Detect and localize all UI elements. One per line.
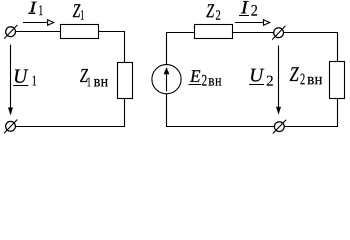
EMF source E2vn	[152, 65, 181, 94]
terminal P3 (top-right)	[272, 26, 285, 40]
wire (top-right terminal right, down to Z2vn)	[284, 33, 338, 62]
resistor Z2vn	[330, 62, 345, 99]
label U1	[13, 69, 36, 85]
resistor Z1vn	[118, 63, 133, 99]
label Z1vn	[80, 69, 108, 86]
current arrow I2	[235, 20, 270, 26]
wire (top-left terminal to Z1)	[16, 31, 61, 33]
wire (Z1 to corner, down to Z1vn)	[99, 32, 125, 63]
wire (Z2vn down, left along bottom rail to terminal)	[284, 99, 337, 127]
terminal P4 (bottom-right)	[273, 120, 286, 134]
resistor Z1	[61, 25, 99, 39]
label Z2	[206, 4, 220, 19]
label U2	[249, 69, 273, 86]
label Z2vn	[290, 67, 322, 84]
terminal P2 (bottom-left)	[4, 120, 17, 134]
label I1	[28, 2, 42, 15]
resistor Z2	[195, 25, 233, 39]
label I2	[239, 1, 257, 15]
wire (Z1vn down, bottom rail to terminal)	[15, 99, 124, 127]
wire (bottom rail terminal to source bottom)	[167, 94, 275, 127]
wire (Z2 to top-right terminal)	[233, 32, 274, 34]
voltage arrow U2	[276, 46, 281, 115]
label E2vn	[189, 70, 222, 85]
terminal P1 (top-left)	[4, 25, 17, 39]
current arrow I1	[23, 20, 54, 26]
wire (source top up and right to Z2)	[167, 33, 195, 65]
label Z1	[73, 4, 84, 19]
voltage arrow U1	[8, 45, 13, 116]
